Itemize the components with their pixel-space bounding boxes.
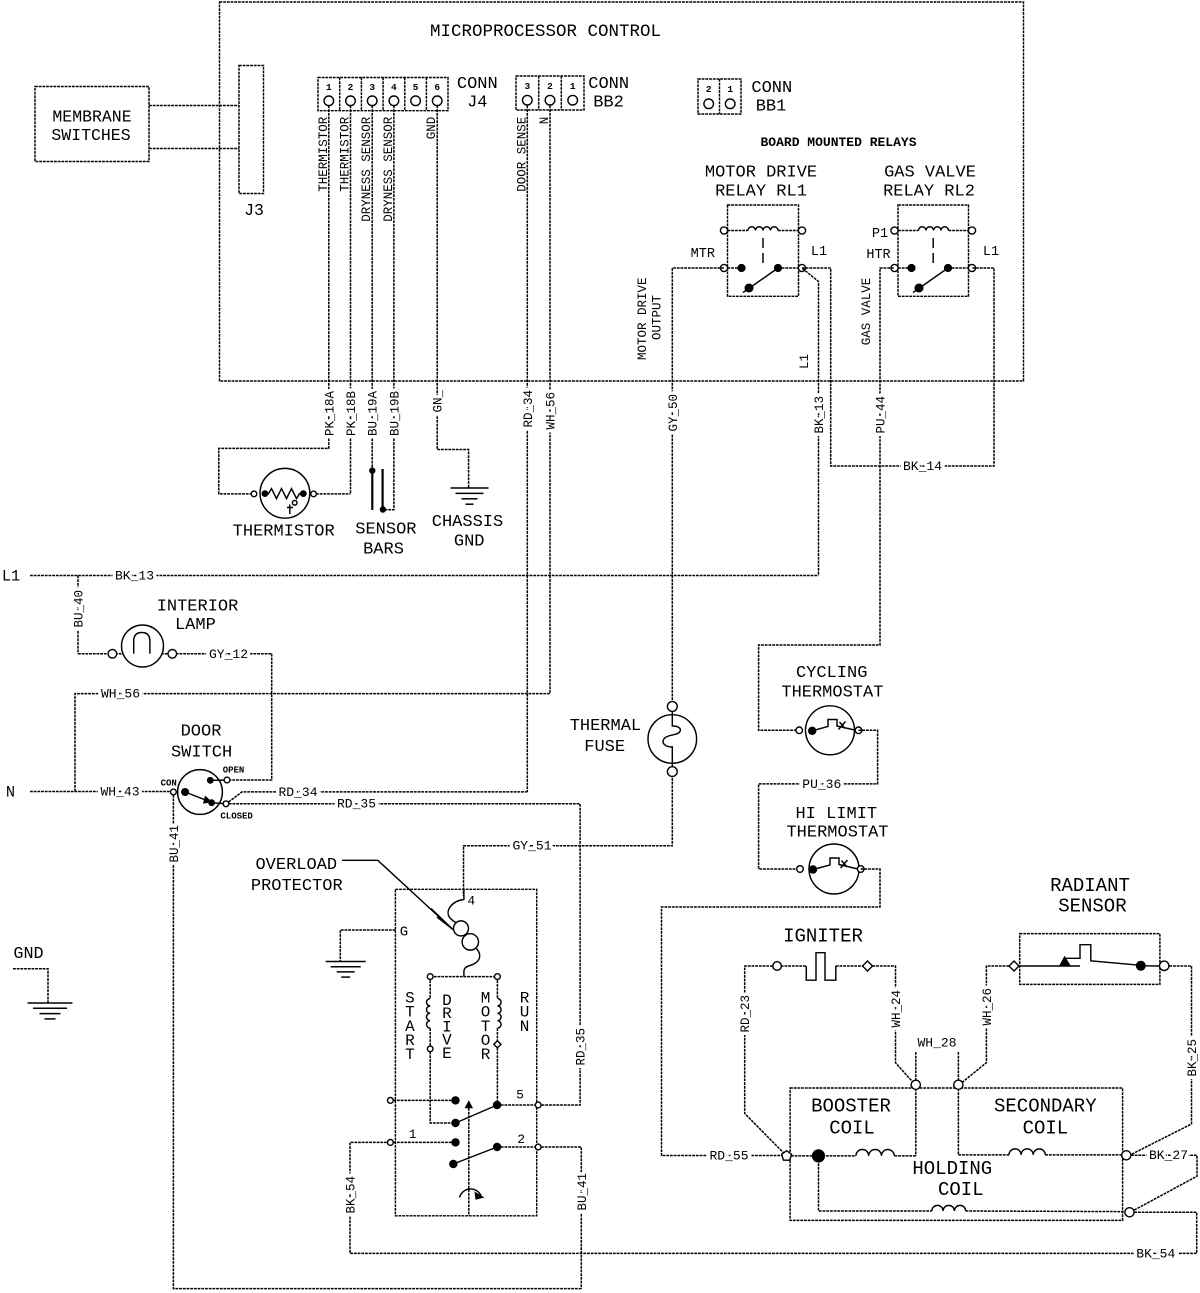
- svg-text:PK_18B: PK_18B: [345, 391, 359, 437]
- svg-text:GND: GND: [13, 945, 43, 964]
- svg-text:2: 2: [517, 1132, 525, 1147]
- svg-text:5: 5: [516, 1087, 524, 1102]
- svg-text:LAMP: LAMP: [175, 616, 216, 635]
- svg-text:SENSOR: SENSOR: [1058, 896, 1126, 918]
- svg-text:CONN: CONN: [588, 75, 629, 94]
- svg-text:HTR: HTR: [866, 248, 890, 263]
- svg-text:HOLDING: HOLDING: [912, 1158, 992, 1180]
- svg-text:2: 2: [348, 82, 354, 93]
- svg-text:RD_55: RD_55: [709, 1148, 748, 1163]
- svg-text:WH_43: WH_43: [100, 784, 139, 799]
- svg-text:GY_51: GY_51: [512, 839, 551, 854]
- svg-text:RUN: RUN: [520, 989, 530, 1035]
- svg-text:WH_56: WH_56: [545, 392, 559, 430]
- svg-text:GAS VALVE: GAS VALVE: [884, 164, 976, 183]
- svg-text:WH_26: WH_26: [981, 988, 995, 1026]
- svg-text:BU_40: BU_40: [73, 590, 87, 628]
- svg-text:L1: L1: [983, 245, 999, 260]
- svg-text:THERMOSTAT: THERMOSTAT: [786, 824, 888, 843]
- svg-text:THERMISTOR: THERMISTOR: [233, 523, 335, 542]
- svg-text:RELAY RL1: RELAY RL1: [715, 183, 807, 202]
- svg-text:THERMAL: THERMAL: [570, 717, 641, 736]
- svg-text:PU_36: PU_36: [802, 777, 841, 792]
- svg-text:BOARD MOUNTED RELAYS: BOARD MOUNTED RELAYS: [760, 135, 916, 150]
- svg-text:PU_44: PU_44: [875, 396, 889, 434]
- svg-text:GY_50: GY_50: [667, 394, 681, 432]
- svg-text:DRIVE: DRIVE: [442, 992, 452, 1063]
- svg-text:HI LIMIT: HI LIMIT: [795, 805, 877, 824]
- svg-text:RD_35: RD_35: [575, 1028, 589, 1066]
- svg-text:GND: GND: [454, 533, 485, 552]
- svg-text:BK_27: BK_27: [1149, 1148, 1188, 1163]
- svg-text:RADIANT: RADIANT: [1050, 875, 1130, 897]
- svg-text:RELAY RL2: RELAY RL2: [883, 183, 975, 202]
- svg-text:3: 3: [524, 81, 530, 92]
- svg-text:L1: L1: [2, 568, 20, 586]
- svg-text:INTERIOR: INTERIOR: [157, 598, 239, 617]
- svg-text:BK_54: BK_54: [1136, 1246, 1175, 1261]
- svg-text:4: 4: [391, 82, 397, 93]
- svg-text:OPEN: OPEN: [223, 766, 245, 776]
- svg-text:PROTECTOR: PROTECTOR: [251, 877, 343, 896]
- svg-text:BOOSTER: BOOSTER: [811, 1096, 891, 1118]
- svg-text:CYCLING: CYCLING: [796, 664, 867, 683]
- svg-text:MOTOR DRIVE: MOTOR DRIVE: [705, 164, 817, 183]
- svg-text:CON: CON: [161, 779, 177, 789]
- svg-text:BB1: BB1: [756, 98, 787, 117]
- svg-text:FUSE: FUSE: [584, 738, 625, 757]
- svg-text:MICROPROCESSOR CONTROL: MICROPROCESSOR CONTROL: [430, 22, 661, 42]
- svg-text:BK_54: BK_54: [345, 1176, 359, 1214]
- svg-text:RD_34: RD_34: [522, 390, 536, 428]
- svg-text:BU_41: BU_41: [168, 825, 182, 863]
- svg-text:RD_34: RD_34: [278, 785, 317, 800]
- svg-text:MOTOR: MOTOR: [481, 989, 491, 1064]
- svg-text:J3: J3: [244, 201, 264, 220]
- svg-text:GAS VALVE: GAS VALVE: [860, 278, 874, 346]
- svg-text:COIL: COIL: [1023, 1118, 1069, 1140]
- svg-text:DOOR: DOOR: [181, 723, 222, 742]
- svg-text:WH_56: WH_56: [101, 687, 140, 702]
- svg-text:G: G: [400, 925, 408, 941]
- svg-text:BU_41: BU_41: [576, 1173, 590, 1211]
- svg-text:RD_35: RD_35: [337, 797, 376, 812]
- svg-text:GY_12: GY_12: [209, 647, 248, 662]
- svg-text:5: 5: [413, 82, 419, 93]
- svg-text:COIL: COIL: [829, 1118, 875, 1140]
- svg-text:PK_18A: PK_18A: [323, 391, 337, 437]
- svg-text:CONN: CONN: [457, 75, 498, 94]
- svg-text:SENSOR: SENSOR: [355, 521, 416, 540]
- svg-text:WH_28: WH_28: [917, 1036, 956, 1051]
- svg-text:L1: L1: [798, 354, 812, 369]
- svg-text:MTR: MTR: [691, 247, 715, 262]
- svg-text:BK_14: BK_14: [903, 459, 942, 474]
- svg-text:THERMOSTAT: THERMOSTAT: [781, 684, 883, 703]
- svg-text:J4: J4: [467, 94, 487, 113]
- svg-text:BARS: BARS: [363, 541, 404, 560]
- svg-text:1: 1: [570, 81, 576, 92]
- svg-text:2: 2: [547, 81, 553, 92]
- svg-text:OUTPUT: OUTPUT: [651, 295, 665, 341]
- svg-text:CHASSIS: CHASSIS: [432, 513, 503, 532]
- svg-text:L1: L1: [811, 245, 827, 260]
- svg-text:WH_24: WH_24: [890, 990, 904, 1028]
- svg-text:SWITCH: SWITCH: [171, 744, 232, 763]
- svg-text:SECONDARY: SECONDARY: [994, 1096, 1097, 1118]
- svg-text:3: 3: [369, 82, 375, 93]
- svg-text:IGNITER: IGNITER: [783, 926, 863, 948]
- svg-text:1: 1: [409, 1127, 417, 1142]
- svg-text:OVERLOAD: OVERLOAD: [255, 856, 337, 875]
- svg-text:6: 6: [434, 82, 440, 93]
- svg-text:BK_13: BK_13: [813, 396, 827, 434]
- svg-text:GN_: GN_: [432, 390, 446, 413]
- svg-text:BU_19B: BU_19B: [388, 391, 402, 437]
- svg-text:MOTOR DRIVE: MOTOR DRIVE: [636, 278, 650, 361]
- svg-text:MEMBRANE: MEMBRANE: [52, 108, 131, 127]
- svg-text:BU_19A: BU_19A: [367, 391, 381, 437]
- svg-text:BK_13: BK_13: [115, 569, 154, 584]
- svg-text:SWITCHES: SWITCHES: [51, 126, 130, 145]
- svg-text:COIL: COIL: [938, 1179, 984, 1201]
- svg-text:N: N: [6, 784, 15, 802]
- svg-text:START: START: [405, 989, 415, 1064]
- svg-text:1: 1: [727, 84, 733, 95]
- svg-text:2: 2: [706, 84, 712, 95]
- svg-text:BK_25: BK_25: [1186, 1039, 1200, 1077]
- svg-text:1: 1: [326, 82, 332, 93]
- svg-text:CONN: CONN: [751, 79, 792, 98]
- svg-text:BB2: BB2: [593, 94, 624, 113]
- svg-text:CLOSED: CLOSED: [220, 811, 253, 821]
- svg-text:P1: P1: [872, 227, 888, 242]
- svg-text:4: 4: [467, 894, 475, 909]
- svg-text:RD_23: RD_23: [739, 995, 753, 1033]
